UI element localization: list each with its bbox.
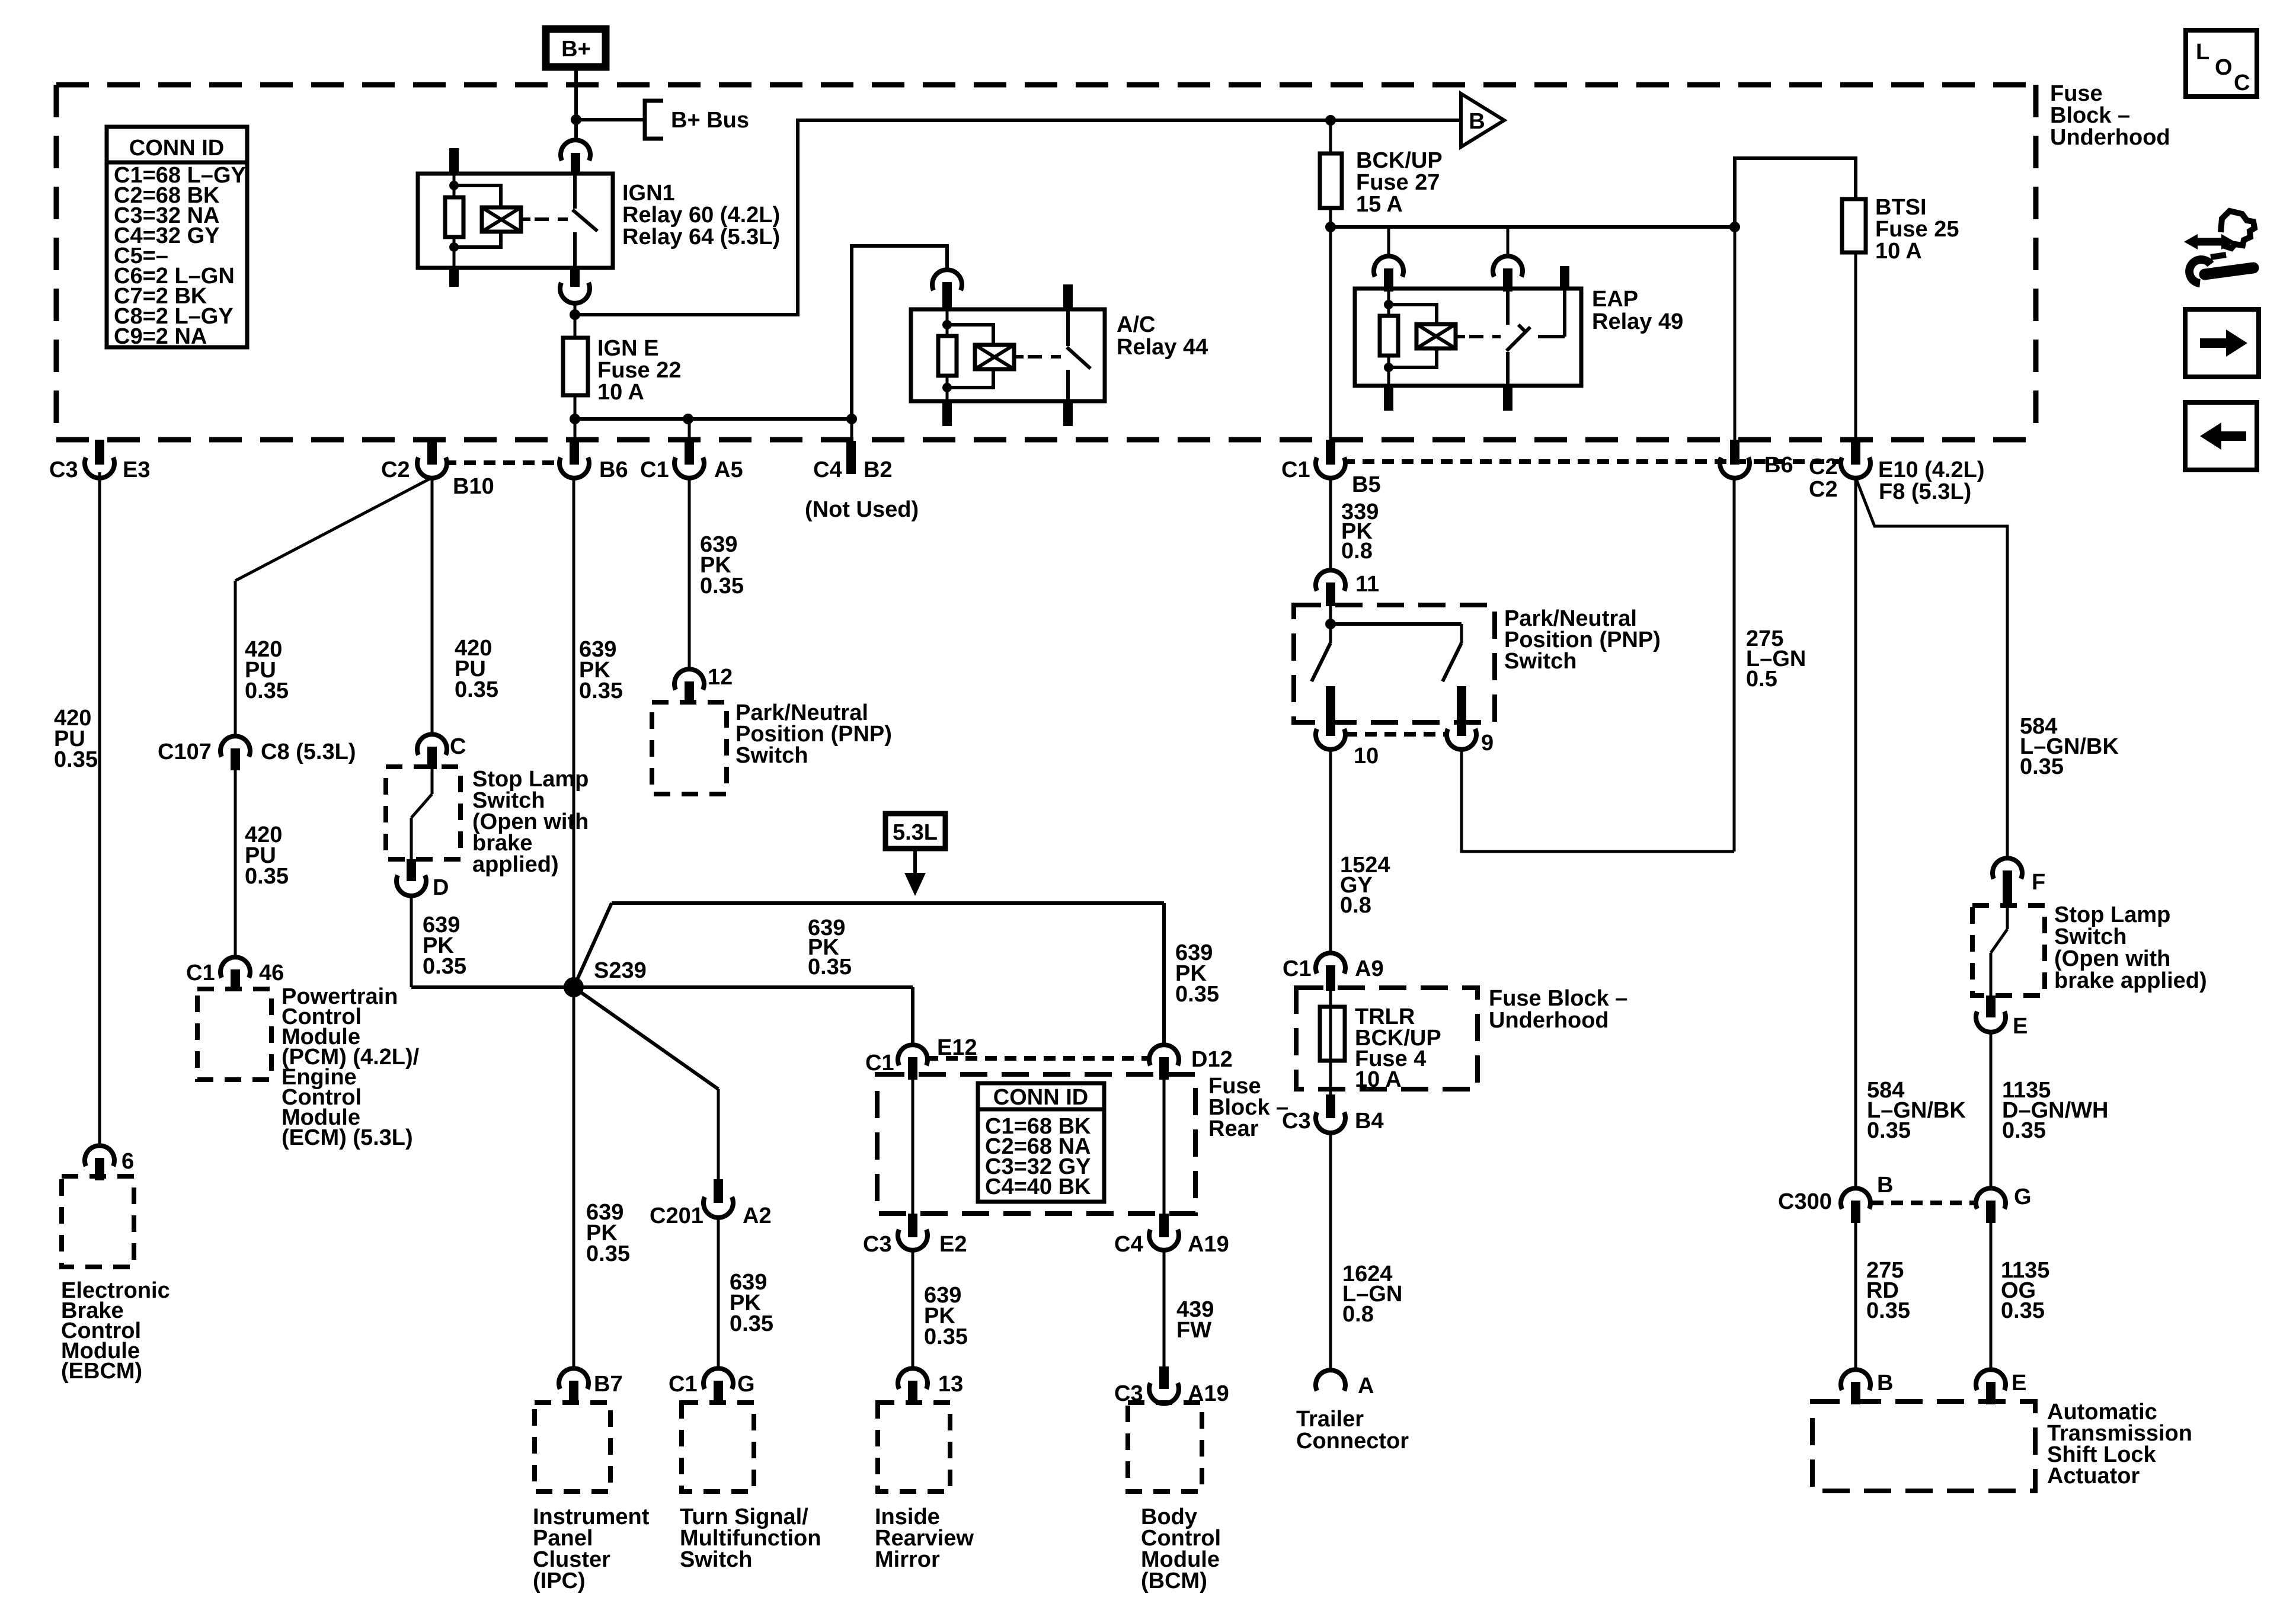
svg-text:(Not Used): (Not Used) [805,497,919,522]
svg-text:C3: C3 [49,457,78,482]
svg-text:brake applied): brake applied) [2054,968,2207,993]
svg-text:CONN ID: CONN ID [993,1085,1088,1110]
svg-text:C2: C2 [1809,454,1838,479]
svg-text:Underhood: Underhood [1489,1008,1609,1033]
svg-text:0.35: 0.35 [730,1311,773,1336]
svg-text:Underhood: Underhood [2050,125,2170,150]
svg-text:0.35: 0.35 [579,678,623,703]
svg-text:B10: B10 [453,474,494,499]
svg-text:0.8: 0.8 [1341,539,1373,564]
svg-text:Actuator: Actuator [2047,1464,2140,1489]
svg-text:0.35: 0.35 [455,677,498,702]
svg-text:C107: C107 [158,740,212,764]
svg-text:C4=40 BK: C4=40 BK [985,1174,1091,1199]
svg-text:G: G [2014,1185,2032,1209]
svg-text:0.35: 0.35 [245,678,289,703]
svg-text:C2: C2 [1809,477,1838,502]
svg-text:0.35: 0.35 [54,747,98,772]
svg-text:A19: A19 [1188,1232,1229,1257]
svg-text:(Open with: (Open with [2054,946,2170,971]
svg-text:Relay 64 (5.3L): Relay 64 (5.3L) [622,225,780,249]
svg-text:B7: B7 [594,1372,623,1397]
svg-text:Switch: Switch [1504,649,1576,674]
svg-text:C: C [450,734,466,759]
svg-text:C300: C300 [1778,1189,1832,1214]
svg-text:A9: A9 [1355,956,1384,981]
svg-text:applied): applied) [472,852,559,877]
svg-text:FW: FW [1176,1318,1211,1343]
svg-text:C4: C4 [813,457,842,482]
svg-text:A2: A2 [743,1204,772,1228]
svg-text:B+: B+ [561,37,591,62]
svg-text:D12: D12 [1191,1047,1233,1072]
svg-text:0.35: 0.35 [2002,1118,2046,1143]
svg-text:Relay 49: Relay 49 [1592,309,1683,334]
svg-text:(EBCM): (EBCM) [61,1359,142,1384]
svg-text:Stop Lamp: Stop Lamp [2054,902,2170,927]
svg-text:B: B [1877,1371,1893,1395]
svg-text:Fuse Block –: Fuse Block – [1489,986,1627,1011]
svg-text:IGN E: IGN E [597,336,658,361]
svg-text:Relay 44: Relay 44 [1117,335,1208,360]
svg-text:EAP: EAP [1592,287,1638,312]
svg-text:C1: C1 [865,1051,894,1076]
svg-text:C1: C1 [186,961,215,985]
svg-text:C1: C1 [1281,457,1310,482]
svg-text:Fuse 22: Fuse 22 [597,358,682,383]
svg-text:6: 6 [121,1149,134,1174]
svg-text:C2: C2 [381,457,410,482]
svg-text:(IPC): (IPC) [533,1569,586,1593]
svg-text:Relay 60 (4.2L): Relay 60 (4.2L) [622,203,780,228]
svg-text:13: 13 [938,1372,963,1397]
svg-text:9: 9 [1481,731,1494,756]
svg-text:0.35: 0.35 [700,574,744,598]
svg-text:A/C: A/C [1117,312,1155,337]
svg-text:C1: C1 [1283,956,1312,981]
svg-text:S239: S239 [594,958,647,983]
svg-text:Fuse 25: Fuse 25 [1875,217,1959,242]
svg-text:E: E [2012,1371,2026,1395]
svg-text:C3: C3 [1282,1109,1311,1134]
svg-text:11: 11 [1355,572,1379,597]
svg-text:0.8: 0.8 [1342,1302,1374,1327]
svg-text:0.35: 0.35 [586,1241,630,1266]
svg-text:Mirror: Mirror [875,1547,940,1572]
svg-text:IGN1: IGN1 [622,181,675,206]
svg-text:0.35: 0.35 [2001,1298,2045,1323]
svg-text:B5: B5 [1352,472,1381,497]
svg-text:BTSI: BTSI [1875,195,1927,220]
svg-text:C201: C201 [650,1204,703,1228]
svg-text:10 A: 10 A [1875,239,1922,264]
svg-text:Rear: Rear [1208,1116,1259,1141]
svg-text:0.35: 0.35 [924,1324,968,1349]
svg-text:0.35: 0.35 [1867,1118,1911,1143]
svg-text:F: F [2032,870,2045,895]
svg-text:15 A: 15 A [1356,192,1403,217]
svg-text:C: C [2234,71,2250,95]
svg-text:10 A: 10 A [1355,1067,1402,1092]
svg-text:(ECM) (5.3L): (ECM) (5.3L) [282,1125,413,1150]
svg-text:0.8: 0.8 [1340,893,1371,918]
svg-text:E: E [2013,1014,2028,1039]
svg-text:C1: C1 [669,1372,698,1397]
svg-text:(BCM): (BCM) [1141,1569,1207,1593]
svg-text:12: 12 [708,665,733,690]
svg-text:CONN ID: CONN ID [129,136,224,161]
svg-text:A: A [1358,1374,1374,1398]
svg-text:B: B [1877,1173,1893,1198]
svg-text:E10 (4.2L): E10 (4.2L) [1878,457,1985,482]
svg-text:0.35: 0.35 [2020,754,2064,779]
svg-text:B: B [1469,109,1485,134]
svg-text:0.5: 0.5 [1746,667,1777,692]
svg-text:0.35: 0.35 [245,864,289,889]
svg-text:B6: B6 [599,457,628,482]
svg-text:B+ Bus: B+ Bus [671,108,749,133]
svg-text:Block –: Block – [2050,103,2130,128]
svg-text:B2: B2 [864,457,893,482]
svg-text:F8 (5.3L): F8 (5.3L) [1879,479,1971,504]
svg-text:C9=2 NA: C9=2 NA [114,324,207,349]
svg-text:C8 (5.3L): C8 (5.3L) [261,740,356,764]
svg-text:0.35: 0.35 [423,954,466,979]
svg-text:L: L [2196,40,2209,65]
svg-text:E3: E3 [123,457,150,482]
svg-text:B4: B4 [1355,1109,1384,1134]
svg-text:Fuse 27: Fuse 27 [1356,170,1440,195]
svg-text:B6: B6 [1764,453,1793,478]
svg-text:0.35: 0.35 [1175,982,1219,1007]
svg-text:C3: C3 [863,1232,892,1257]
svg-text:D: D [433,875,449,900]
svg-text:G: G [737,1372,755,1397]
svg-text:Fuse: Fuse [2050,81,2103,106]
svg-text:0.35: 0.35 [808,955,852,980]
svg-text:5.3L: 5.3L [893,820,938,845]
svg-text:10 A: 10 A [597,380,644,405]
svg-text:0.35: 0.35 [1866,1298,1910,1323]
svg-text:C1: C1 [640,457,669,482]
svg-text:O: O [2215,55,2233,80]
svg-text:Switch: Switch [680,1547,752,1572]
svg-text:Connector: Connector [1296,1429,1409,1454]
svg-text:BCK/UP: BCK/UP [1356,148,1443,173]
svg-text:10: 10 [1354,744,1379,769]
svg-text:A5: A5 [714,457,743,482]
svg-text:C4: C4 [1114,1232,1143,1257]
svg-text:46: 46 [259,961,284,985]
svg-text:Trailer: Trailer [1296,1407,1364,1432]
svg-text:Switch: Switch [2054,924,2126,949]
svg-text:E2: E2 [939,1232,967,1257]
svg-text:Switch: Switch [736,743,808,768]
